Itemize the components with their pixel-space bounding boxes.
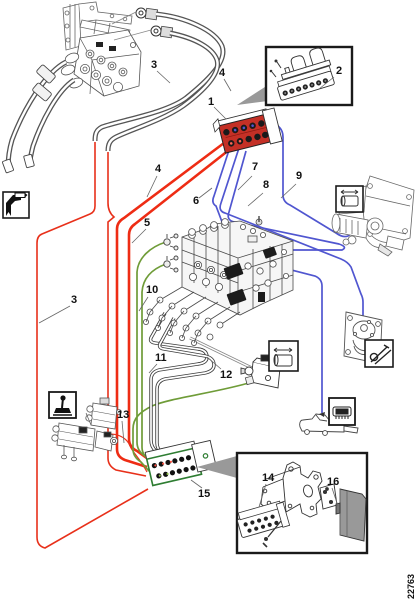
svg-text:4: 4 (219, 67, 226, 79)
svg-text:15: 15 (198, 488, 210, 500)
bracket 14 in box (261, 462, 322, 517)
thick red hose from connector 1 (A) (117, 140, 228, 467)
connector strip in box 2 (276, 66, 335, 101)
top-left valve assembly bracket (63, 2, 132, 50)
blue hose 9 to pedal valve (261, 124, 358, 237)
svg-text:7: 7 (252, 161, 258, 173)
hose (down-left) from valve, upper (8, 62, 66, 168)
svg-text:8: 8 (263, 179, 269, 191)
black hose 12 (s-route) (157, 318, 214, 458)
green hose from valve 12 (133, 382, 252, 471)
detail box 14/16 (237, 453, 367, 553)
pedal valve assembly (right) (332, 176, 414, 256)
svg-text:22763: 22763 (406, 574, 416, 599)
green hose from valve stack upper tee (137, 242, 166, 462)
lower tee fitting rows of stack (143, 287, 240, 346)
lever unit (bottom) (300, 414, 358, 435)
red line of hose 3 (long left loop) (37, 142, 148, 548)
icon box: joystick (49, 392, 76, 418)
end cap of upper-left hose (2, 159, 14, 173)
icon box: bent lift arm (top-left) (3, 192, 29, 218)
connector block 1 (212, 105, 282, 156)
icon box: cylinder (pedal) (336, 186, 363, 212)
hose 4 black part (108, 33, 218, 151)
top-left valve block (60, 30, 141, 96)
blue hose 7 to motor (220, 148, 363, 316)
part 16 small bracket in box (266, 467, 337, 509)
hose 3 black part (95, 14, 223, 141)
svg-text:3: 3 (71, 294, 77, 306)
red line of hose 4 (thin) (108, 152, 146, 476)
svg-text:16: 16 (327, 476, 339, 488)
hose (down-left) from valve, lower (29, 80, 74, 165)
crimp fitting on lower hose (32, 82, 52, 101)
valve 12 (small) (241, 355, 283, 388)
green hose from valve stack lower tee (142, 264, 166, 467)
red line from valve 13 (101, 434, 147, 472)
icon box: cylinder (valve 12) (269, 341, 298, 371)
black hose 11 (s-route) (151, 313, 207, 457)
svg-text:14: 14 (262, 472, 275, 484)
grey arrow from detail box 14/16 (197, 456, 237, 478)
svg-text:1: 1 (208, 96, 214, 108)
svg-text:2: 2 (336, 65, 342, 77)
stack front ports (189, 249, 288, 291)
bracket in box 2 (277, 46, 331, 80)
svg-text:12: 12 (220, 369, 232, 381)
eye fitting of hose 4 (151, 26, 173, 38)
svg-text:11: 11 (155, 352, 167, 364)
svg-text:13: 13 (117, 409, 129, 421)
svg-text:6: 6 (193, 195, 199, 207)
screw in box 14 (268, 521, 281, 537)
caps on stack top (189, 216, 266, 242)
detail box 2 (266, 47, 352, 105)
plate 16 in box (336, 489, 366, 541)
svg-text:10: 10 (146, 284, 158, 296)
grey arrow from detail box 2 (237, 85, 268, 105)
grey hose to valve 12 (190, 338, 252, 368)
svg-text:5: 5 (144, 217, 150, 229)
connector block 15 (145, 438, 217, 486)
motor unit (344, 312, 382, 364)
icon box: connector (lever) (329, 398, 355, 425)
svg-text:9: 9 (296, 170, 302, 182)
eye fitting of hose 3 (136, 8, 158, 20)
solenoid blocks on stack (223, 263, 243, 280)
screws in box 2 (277, 62, 281, 68)
green tee fitting upper (164, 234, 178, 250)
valve 13 assembly (52, 398, 122, 461)
blue hose 6 to control valve (213, 144, 233, 251)
main valve stack body (182, 221, 293, 315)
icon box: knife (motor) (365, 340, 393, 367)
svg-text:4: 4 (155, 163, 162, 175)
bracket-to-eye link lines (112, 12, 151, 40)
connector in box 14 (235, 500, 289, 538)
thick red hose from connector 1 (B) (129, 146, 234, 459)
crimp fitting on upper hose (36, 64, 56, 83)
end cap of lower-left hose (24, 154, 35, 168)
svg-text:3: 3 (151, 59, 157, 71)
blue hose 8 to lever unit (228, 151, 344, 413)
green tee fitting lower (164, 256, 178, 272)
